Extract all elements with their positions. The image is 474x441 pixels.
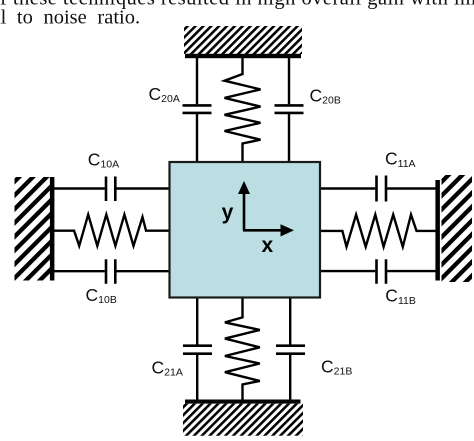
svg-text:al to noise ratio.: al to noise ratio.	[0, 7, 140, 29]
svg-text:y: y	[222, 201, 234, 224]
svg-text:x: x	[261, 234, 273, 257]
